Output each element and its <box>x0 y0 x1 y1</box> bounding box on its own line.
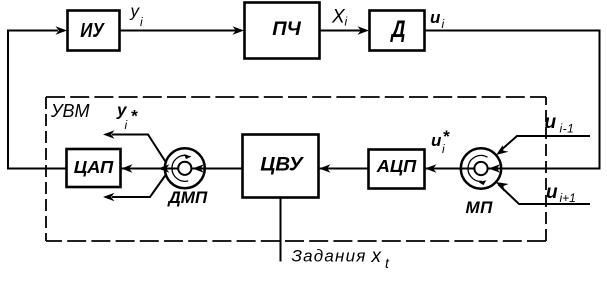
svg-text:x: x <box>371 246 383 267</box>
svg-text:Д: Д <box>390 16 406 43</box>
arrowhead of u_{i-1} into MP <box>496 145 508 155</box>
arrowhead into PCH <box>233 26 245 34</box>
wire DMP branch up y_i* output <box>112 135 167 165</box>
svg-text:ДМП: ДМП <box>167 188 208 207</box>
wire input u_{i+1} into MP <box>499 185 591 205</box>
multiplexer MP <box>461 148 501 188</box>
svg-text:i: i <box>442 142 445 156</box>
arrowhead into CAP <box>121 164 133 172</box>
wire setpoint input into CVU bottom <box>280 198 282 262</box>
svg-text:i: i <box>140 15 143 29</box>
wire input u_{i-1} into MP <box>500 136 591 152</box>
block IU <box>68 11 120 51</box>
block ACP <box>369 150 425 189</box>
wire CVU to ACP <box>319 168 369 170</box>
svg-text:ИУ: ИУ <box>80 19 105 42</box>
block CAP <box>67 149 121 187</box>
demultiplexer DMP <box>158 148 205 188</box>
svg-text:i-1: i-1 <box>560 122 575 136</box>
dashed UVM boundary top edge <box>46 96 546 98</box>
svg-text:ЦАП: ЦАП <box>74 157 114 177</box>
svg-text:y: y <box>130 2 141 21</box>
wire DMP row: CAP to CVU through DMP <box>121 168 242 170</box>
arrowhead of down branch <box>103 193 115 201</box>
block D <box>370 11 425 51</box>
wire feedback from CAP left, up and into IU <box>8 31 67 169</box>
dashed UVM boundary bottom edge <box>46 240 546 242</box>
svg-text:u: u <box>431 131 442 150</box>
svg-text:u: u <box>430 8 441 27</box>
svg-text:u: u <box>546 182 558 203</box>
svg-text:i: i <box>345 15 348 29</box>
svg-text:УВМ: УВМ <box>50 101 90 121</box>
svg-text:i: i <box>442 17 445 31</box>
dashed UVM boundary right edge <box>545 97 547 241</box>
wire ACP to MP <box>425 168 600 170</box>
svg-text:АЦП: АЦП <box>376 156 417 176</box>
svg-text:u: u <box>545 112 557 133</box>
block CVU <box>243 135 319 198</box>
arrowhead into D <box>358 26 370 34</box>
svg-text:ПЧ: ПЧ <box>272 19 301 40</box>
svg-text:ЦВУ: ЦВУ <box>260 154 304 176</box>
wire PCH to D <box>320 30 362 32</box>
block PCH <box>245 3 320 59</box>
wire DMP branch down output <box>112 173 167 197</box>
arrowhead into ACP <box>425 164 437 172</box>
arrowhead into CVU <box>319 164 331 172</box>
wire D output right and down to MP <box>425 31 600 169</box>
svg-text:i: i <box>125 118 128 132</box>
arrowhead into IU <box>56 26 68 34</box>
arrowhead of u_{i+1} into MP <box>496 182 509 192</box>
svg-text:i+1: i+1 <box>560 191 576 205</box>
wire IU to PCH <box>120 30 237 32</box>
svg-text:МП: МП <box>466 198 494 217</box>
dashed UVM boundary left edge <box>45 97 47 241</box>
svg-text:Задания: Задания <box>292 247 367 266</box>
arrowhead of y_i* branch <box>103 130 115 138</box>
svg-text:y: y <box>116 101 128 120</box>
